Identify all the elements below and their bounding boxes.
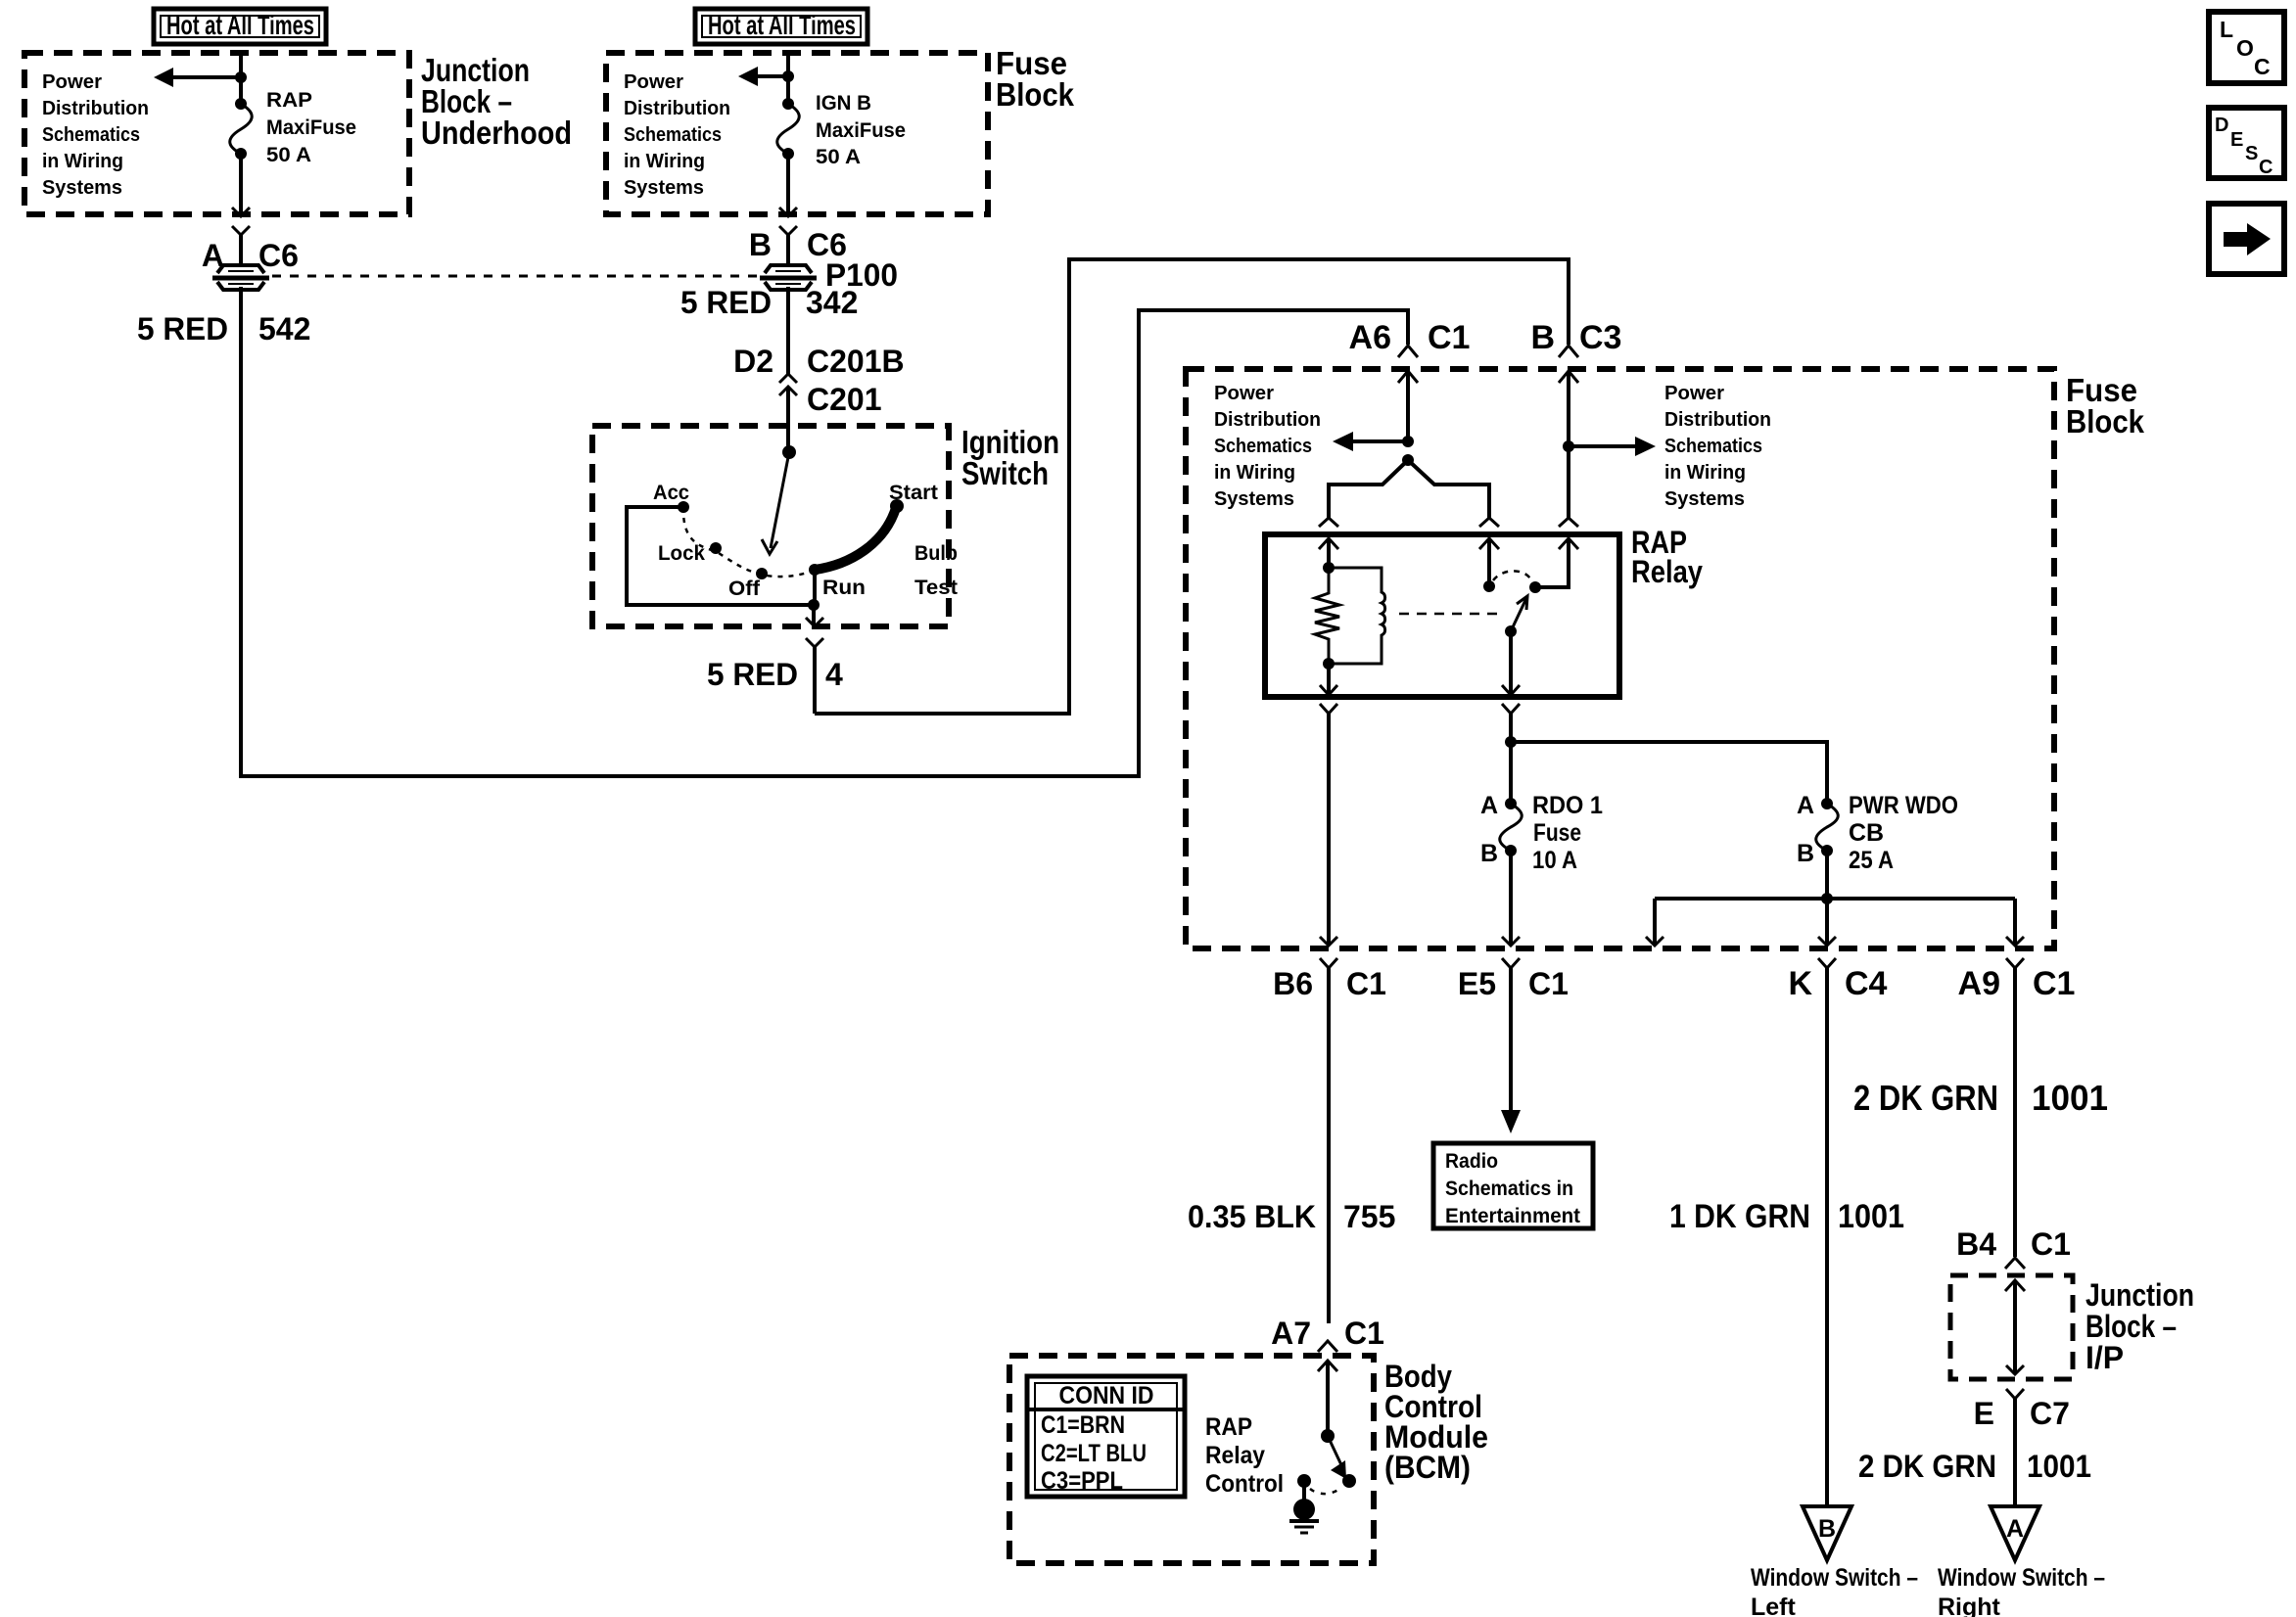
svg-text:C1: C1 <box>1344 1316 1384 1351</box>
contact Start <box>890 499 904 513</box>
wire label 5 RED | 542 <box>137 311 310 346</box>
svg-text:Acc: Acc <box>653 482 689 504</box>
wire Y split left branch to relay <box>1329 460 1408 518</box>
node relay switch output <box>1505 625 1517 637</box>
svg-text:B: B <box>1530 319 1555 356</box>
wire to RDO 1 fuse <box>1509 742 1513 804</box>
note text: power distribution schematics (fuse block right) <box>1664 383 1771 510</box>
svg-text:C3: C3 <box>1579 319 1621 356</box>
relay pin 4 exit arrow <box>1320 685 1337 695</box>
svg-text:Lock: Lock <box>658 542 705 565</box>
power label "Hot at All Times" (middle) <box>695 9 867 44</box>
connector arrow at ignition box bottom <box>806 618 823 626</box>
svg-text:O: O <box>2236 35 2254 61</box>
svg-text:C2=LT BLU: C2=LT BLU <box>1041 1440 1147 1467</box>
connector chevron pin A of C6 <box>232 226 250 265</box>
pin label E5 | C1 <box>1458 966 1569 1001</box>
svg-text:Block –: Block – <box>2085 1309 2177 1344</box>
svg-text:E: E <box>2230 129 2243 151</box>
svg-text:in Wiring: in Wiring <box>624 151 705 172</box>
svg-text:CONN ID: CONN ID <box>1059 1382 1154 1409</box>
node ignition feed junction <box>782 445 796 459</box>
svg-text:2 DK GRN: 2 DK GRN <box>1858 1449 1996 1484</box>
svg-text:C1: C1 <box>1428 319 1470 356</box>
svg-text:1001: 1001 <box>2027 1449 2091 1484</box>
svg-text:I/P: I/P <box>2085 1340 2124 1375</box>
svg-text:Power: Power <box>1214 383 1274 404</box>
wire Acc feed loop inside ignition switch <box>627 507 814 605</box>
connector chevron B6 of C1 <box>1320 958 1337 1323</box>
svg-text:PWR WDO: PWR WDO <box>1849 792 1958 819</box>
value label RDO 1 Fuse 10 A <box>1532 792 1603 874</box>
fuse RDO 1 10 A <box>1500 798 1523 856</box>
svg-text:Distribution: Distribution <box>1214 409 1321 431</box>
wire arrow to power distribution (left) <box>154 68 241 87</box>
connector chevron B4 of C1 <box>2005 1258 2025 1269</box>
svg-text:A: A <box>2006 1515 2024 1543</box>
svg-text:Schematics: Schematics <box>624 124 722 146</box>
connector pin B of C3 (fuse block top) <box>1559 346 1578 446</box>
node A6 branch junction <box>1402 436 1414 447</box>
wire arrow to power distribution (fuse block left note) <box>1333 432 1408 451</box>
wire arrow to power distribution (middle) <box>738 67 788 86</box>
svg-text:50 A: 50 A <box>816 146 861 168</box>
svg-text:Block: Block <box>996 76 1075 113</box>
svg-text:IGN B: IGN B <box>816 92 871 115</box>
label RAP Relay Control <box>1205 1413 1284 1498</box>
svg-text:C201B: C201B <box>807 344 905 379</box>
BCM rap relay control switch arm <box>1328 1436 1346 1479</box>
ground (BCM) <box>1289 1481 1319 1533</box>
fuse RAP MaxiFuse 50 A <box>230 98 253 160</box>
dashed tie line between grommets <box>272 275 760 278</box>
svg-text:5 RED: 5 RED <box>680 285 772 320</box>
ignition switch dashed box <box>592 426 949 626</box>
connector arrow at ign fuse block bottom <box>779 208 797 216</box>
svg-text:Schematics: Schematics <box>42 124 140 146</box>
pin label A | C6 <box>202 238 299 273</box>
value label IGN B MaxiFuse 50 A <box>816 92 906 168</box>
node junction at RAP feed <box>235 71 247 83</box>
wire Run contact to output node <box>813 570 817 605</box>
contact Acc <box>678 501 689 513</box>
connector chevron E5 of C1 <box>1502 958 1520 1112</box>
wire label 5 RED | 342 <box>680 285 858 320</box>
svg-text:C1=BRN: C1=BRN <box>1041 1411 1125 1439</box>
node switched battery split <box>1505 736 1517 748</box>
svg-text:Distribution: Distribution <box>1664 409 1771 431</box>
relay title RAP Relay <box>1631 525 1703 589</box>
svg-text:Run: Run <box>822 577 866 599</box>
svg-text:5 RED: 5 RED <box>707 657 798 692</box>
connector chevron relay pin 3 (battery) <box>1559 518 1578 527</box>
svg-text:E: E <box>1974 1396 1994 1431</box>
ignition switch title <box>961 424 1059 491</box>
off-page connector triangle A (window switch right) <box>1991 1506 2039 1560</box>
svg-text:Right: Right <box>1938 1594 2001 1617</box>
svg-text:B: B <box>1797 840 1814 867</box>
power label "Hot at All Times" (left) <box>154 9 326 44</box>
svg-text:Start: Start <box>889 482 938 504</box>
svg-text:RAP: RAP <box>1205 1413 1252 1441</box>
pin label B4 | C1 <box>1956 1226 2071 1262</box>
wire relay switch output to pin 5 <box>1509 631 1513 695</box>
svg-text:B6: B6 <box>1273 966 1313 1001</box>
connector arrow at junction block bottom <box>232 208 250 216</box>
svg-text:755: 755 <box>1343 1199 1395 1234</box>
svg-text:CB: CB <box>1849 819 1884 847</box>
value label PWR WDO CB 25 A <box>1849 792 1958 874</box>
svg-text:A6: A6 <box>1349 319 1391 356</box>
svg-text:Schematics: Schematics <box>1664 436 1762 457</box>
body control module dashed box <box>1009 1356 1374 1563</box>
wire 5 RED 4 down, right and up to fuse block pin B C3 <box>815 259 1569 714</box>
wire to PWR WDO CB <box>1511 742 1827 804</box>
svg-text:A: A <box>1480 792 1498 819</box>
relay pin 1 entry arrow <box>1319 538 1338 568</box>
relay actuate dashed arc <box>1493 571 1530 580</box>
fuse IGN B MaxiFuse 50 A <box>777 98 800 160</box>
fuse block title <box>996 45 1075 113</box>
nav icon LOC <box>2209 12 2284 83</box>
wire label 1 DK GRN | 1001 <box>1669 1198 1904 1235</box>
wire from Hot at All Times into junction block <box>239 53 243 104</box>
svg-text:Schematics: Schematics <box>1214 436 1312 457</box>
svg-text:1 DK GRN: 1 DK GRN <box>1669 1198 1810 1235</box>
connector chevron A9 of C1 <box>2006 958 2024 1257</box>
svg-text:MaxiFuse: MaxiFuse <box>816 119 906 142</box>
svg-text:D: D <box>2215 115 2228 136</box>
connector chevron A7 of C1 (BCM top) <box>1318 1341 1337 1352</box>
svg-text:Fuse: Fuse <box>1533 819 1581 847</box>
svg-text:Control: Control <box>1205 1470 1284 1498</box>
nav icon next arrow <box>2209 204 2284 274</box>
wire from IGN B fuse to block edge <box>786 154 790 216</box>
ignition bulb test thick arc Run-Start <box>815 508 896 570</box>
label Window Switch - Right <box>1938 1564 2105 1617</box>
node relay coil bottom <box>1323 658 1335 670</box>
svg-text:Relay: Relay <box>1631 554 1703 589</box>
connector arrow B6 at fuse block bottom <box>1320 937 1337 946</box>
wire RDO 1 fuse to fuse block edge <box>1509 851 1513 946</box>
pin label E | C7 <box>1974 1396 2070 1431</box>
svg-text:Radio: Radio <box>1445 1150 1498 1173</box>
wire B C3 down to relay <box>1567 446 1570 518</box>
wire PWR WDO CB output <box>1825 851 1829 899</box>
svg-text:Window Switch –: Window Switch – <box>1938 1564 2105 1592</box>
svg-text:A9: A9 <box>1958 965 2000 1002</box>
wire arrow to power distribution (fuse block right note) <box>1569 437 1656 456</box>
svg-text:E5: E5 <box>1458 966 1496 1001</box>
svg-text:Switch: Switch <box>961 455 1049 491</box>
relay movable contact arm <box>1511 596 1527 631</box>
svg-text:K: K <box>1788 965 1812 1002</box>
node BCM ground contact <box>1297 1474 1311 1488</box>
wire relay coil to pin 4 <box>1327 664 1331 695</box>
svg-text:Power: Power <box>1664 383 1724 404</box>
svg-text:Systems: Systems <box>42 177 122 199</box>
node ignition output <box>808 599 820 611</box>
svg-text:Hot at All Times: Hot at All Times <box>708 10 856 40</box>
svg-text:A7: A7 <box>1271 1316 1311 1351</box>
svg-text:Power: Power <box>624 71 683 93</box>
node CB output split <box>1821 893 1833 904</box>
relay pin 2 entry arrow <box>1479 538 1499 586</box>
svg-text:Block: Block <box>2066 403 2145 439</box>
connector arrow A9 at fuse block bottom <box>2006 937 2024 946</box>
svg-text:C1: C1 <box>1528 966 1569 1001</box>
fuse block (main) title <box>2066 372 2145 439</box>
svg-text:(BCM): (BCM) <box>1384 1450 1471 1485</box>
svg-text:C1: C1 <box>1346 966 1386 1001</box>
svg-text:D2: D2 <box>733 344 773 379</box>
connector chevron K of C4 <box>1818 958 1836 1505</box>
svg-text:342: 342 <box>806 285 858 320</box>
connector chevron E of C7 <box>2006 1389 2024 1505</box>
pin label K | C4 <box>1788 965 1887 1002</box>
wire through junction block I/P <box>2005 1280 2025 1374</box>
svg-text:C1: C1 <box>2031 1226 2071 1262</box>
relay pin 3 entry arrow <box>1539 538 1578 587</box>
svg-text:C201: C201 <box>807 382 882 417</box>
pin label A6 | C1 <box>1349 319 1471 356</box>
svg-text:4: 4 <box>825 657 843 692</box>
svg-text:25 A: 25 A <box>1849 847 1894 874</box>
svg-text:RDO 1: RDO 1 <box>1532 792 1603 819</box>
BCM input arrow and wire <box>1318 1361 1337 1436</box>
circuit breaker PWR WDO CB 25 A <box>1816 798 1839 856</box>
svg-text:Window Switch –: Window Switch – <box>1751 1564 1918 1592</box>
svg-text:5 RED: 5 RED <box>137 311 228 346</box>
svg-text:B4: B4 <box>1956 1226 1996 1262</box>
value label RAP MaxiFuse 50 A <box>266 89 356 166</box>
svg-text:10 A: 10 A <box>1532 847 1577 874</box>
wire CB output tee <box>1655 897 2015 901</box>
svg-text:B: B <box>1480 840 1498 867</box>
svg-text:in Wiring: in Wiring <box>1214 462 1295 484</box>
svg-text:C4: C4 <box>1845 965 1888 1002</box>
svg-text:Underhood: Underhood <box>421 115 572 151</box>
reference box Radio Schematics in Entertainment <box>1433 1143 1593 1228</box>
svg-text:Hot at All Times: Hot at All Times <box>166 10 314 40</box>
svg-text:Systems: Systems <box>624 177 704 199</box>
junction block I/P dashed box <box>1950 1275 2073 1379</box>
svg-text:Power: Power <box>42 71 102 93</box>
label Window Switch - Left <box>1751 1564 1918 1617</box>
wire from Hot at All Times into ign fuse block <box>786 53 790 104</box>
wire stub to fuse block edge (left drop) <box>1653 899 1657 946</box>
wire label 5 RED | 4 <box>707 657 843 692</box>
svg-text:RAP: RAP <box>266 89 312 112</box>
BCM switch dashed arc <box>1310 1487 1342 1494</box>
pin label B | C6 <box>749 227 847 262</box>
pin label B | C3 <box>1530 319 1621 356</box>
wire label 2 DK GRN | 1001 (lower) <box>1858 1449 2091 1484</box>
off-page connector triangle B (window switch left) <box>1803 1506 1851 1560</box>
note text: power distribution schematics (fuse block left) <box>1214 383 1321 510</box>
svg-text:542: 542 <box>258 311 310 346</box>
coil (relay) <box>1329 568 1385 664</box>
svg-text:in Wiring: in Wiring <box>42 151 123 172</box>
grommet pass-through (left, under A C6) <box>212 265 269 290</box>
connector pin A6 of C1 (fuse block top) <box>1398 346 1418 441</box>
label Bulb Test <box>914 542 958 599</box>
wire ignition output <box>812 605 816 626</box>
nav icon DESC <box>2209 108 2284 178</box>
ignition wiper arrow toward Off <box>762 452 789 554</box>
svg-text:C3=PPL: C3=PPL <box>1041 1467 1123 1495</box>
svg-text:Distribution: Distribution <box>624 98 730 119</box>
connector chevron relay pin 5 (switched battery) <box>1502 704 1520 742</box>
svg-text:S: S <box>2245 143 2258 164</box>
wire label 2 DK GRN | 1001 (upper) <box>1853 1078 2108 1118</box>
svg-text:Schematics in: Schematics in <box>1445 1178 1573 1200</box>
svg-text:A: A <box>1797 792 1814 819</box>
svg-text:Test: Test <box>914 577 958 599</box>
connector C201 inline pin D2 <box>779 374 797 452</box>
svg-text:Systems: Systems <box>1214 488 1294 510</box>
note text: power distribution schematics (junction block) <box>42 71 149 199</box>
pin label D2 | C201B / C201 <box>733 344 905 417</box>
svg-text:Relay: Relay <box>1205 1442 1265 1469</box>
contact Off <box>756 568 768 579</box>
note text: power distribution schematics (ign fuse block) <box>624 71 730 199</box>
connector chevron pin B of C6 <box>779 226 797 265</box>
node BCM switch closed contact <box>1342 1474 1356 1488</box>
contact Run node <box>809 564 820 576</box>
svg-text:MaxiFuse: MaxiFuse <box>266 116 356 139</box>
pin label A7 | C1 <box>1271 1316 1384 1351</box>
svg-text:Junction: Junction <box>2085 1277 2194 1313</box>
pin labels A / B (RDO 1 fuse) <box>1480 792 1498 867</box>
node relay switch pivot <box>1529 581 1541 593</box>
wire from fuse to junction block edge <box>239 154 243 216</box>
svg-text:Systems: Systems <box>1664 488 1745 510</box>
wire 5 RED 342 down to C201 <box>786 287 790 374</box>
svg-text:Distribution: Distribution <box>42 98 149 119</box>
relay RAP Relay box <box>1265 534 1619 697</box>
svg-text:C6: C6 <box>258 238 299 273</box>
svg-text:Off: Off <box>728 577 761 600</box>
svg-text:Left: Left <box>1751 1594 1797 1617</box>
wire label 0.35 BLK | 755 <box>1188 1199 1395 1234</box>
node Y split to relay pins <box>1402 454 1414 466</box>
pin label B6 | C1 <box>1273 966 1386 1001</box>
svg-text:C1: C1 <box>2033 965 2075 1002</box>
node BCM switch top <box>1321 1429 1335 1443</box>
node junction at IGN B feed <box>782 70 794 82</box>
svg-text:2 DK GRN: 2 DK GRN <box>1853 1078 1998 1118</box>
pin labels A / B (PWR WDO CB) <box>1797 792 1814 867</box>
svg-text:C7: C7 <box>2030 1396 2070 1431</box>
arrow into radio schematics <box>1501 1110 1521 1133</box>
contact Lock <box>710 542 722 554</box>
svg-text:B: B <box>749 227 772 262</box>
body control module title <box>1384 1359 1488 1485</box>
wire K drop <box>1825 899 1829 946</box>
node relay coil top <box>1323 562 1335 574</box>
svg-text:1001: 1001 <box>2032 1078 2108 1118</box>
junction block underhood dashed box <box>24 53 409 214</box>
conn id table <box>1027 1376 1185 1497</box>
svg-text:L: L <box>2220 17 2233 42</box>
ignition rotary dashed arc Acc-Lock-Off-Run <box>683 507 813 577</box>
svg-text:B: B <box>1818 1515 1836 1543</box>
relay pin 5 exit arrow <box>1502 685 1520 695</box>
junction block underhood title <box>421 52 572 151</box>
wire A9 drop <box>2013 899 2017 946</box>
svg-text:C: C <box>2259 157 2273 178</box>
coil-to-arm dashed link <box>1399 613 1498 616</box>
connector chevron relay pin 1 (coil feed) <box>1319 518 1338 527</box>
connector chevron relay pin 2 (switch arm feed) <box>1479 518 1499 527</box>
connector chevron relay pin 4 (coil return) <box>1320 704 1337 946</box>
svg-text:0.35 BLK: 0.35 BLK <box>1188 1199 1316 1234</box>
wire Y split right branch to relay <box>1408 460 1489 518</box>
junction block I/P title <box>2085 1277 2194 1375</box>
connector arrow (left drop) <box>1646 937 1663 946</box>
svg-text:1001: 1001 <box>1838 1198 1904 1235</box>
svg-text:C: C <box>2254 54 2271 79</box>
node relay switch control contact <box>1483 580 1495 592</box>
svg-text:in Wiring: in Wiring <box>1664 462 1746 484</box>
grommet P100 <box>760 265 817 290</box>
svg-text:Entertainment: Entertainment <box>1445 1205 1580 1227</box>
fuse block (main) dashed box <box>1186 369 2054 948</box>
connector chevron ignition output <box>806 638 823 714</box>
fuse block (IGN B) dashed box <box>606 53 988 214</box>
connector arrow E5 at fuse block bottom <box>1502 937 1520 946</box>
node B C3 branch junction <box>1563 440 1574 452</box>
wire 5 RED 542 from C6-A down, right and up to fuse block <box>241 287 1408 776</box>
svg-text:Bulb: Bulb <box>914 542 958 565</box>
connector arrow K at fuse block bottom <box>1818 937 1836 946</box>
svg-text:50 A: 50 A <box>266 144 311 166</box>
pin label A9 | C1 <box>1958 965 2076 1002</box>
resistor (relay) <box>1315 568 1339 664</box>
